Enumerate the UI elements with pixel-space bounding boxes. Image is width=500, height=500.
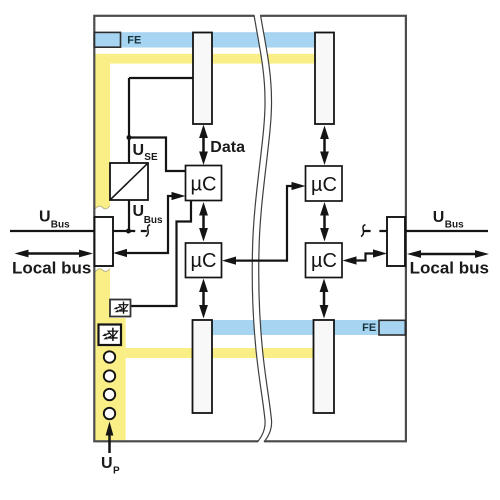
svg-text:FE: FE bbox=[127, 34, 141, 46]
svg-text:Bus: Bus bbox=[144, 215, 163, 226]
svg-text:Local bus: Local bus bbox=[12, 259, 91, 278]
svg-text:SE: SE bbox=[144, 152, 158, 163]
svg-text:µC: µC bbox=[311, 174, 337, 196]
svg-text:Local bus: Local bus bbox=[410, 259, 489, 278]
svg-text:µC: µC bbox=[311, 250, 337, 272]
svg-text:µC: µC bbox=[191, 250, 217, 272]
svg-text:P: P bbox=[113, 466, 120, 477]
svg-text:FE: FE bbox=[362, 322, 376, 334]
svg-text:Data: Data bbox=[210, 139, 245, 156]
svg-text:Bus: Bus bbox=[445, 219, 464, 230]
svg-text:U: U bbox=[433, 209, 445, 226]
svg-text:U: U bbox=[101, 455, 113, 472]
svg-text:U: U bbox=[39, 209, 51, 226]
svg-text:U: U bbox=[133, 142, 145, 159]
svg-text:U: U bbox=[133, 203, 145, 220]
svg-text:µC: µC bbox=[191, 174, 217, 196]
svg-text:Bus: Bus bbox=[51, 219, 70, 230]
